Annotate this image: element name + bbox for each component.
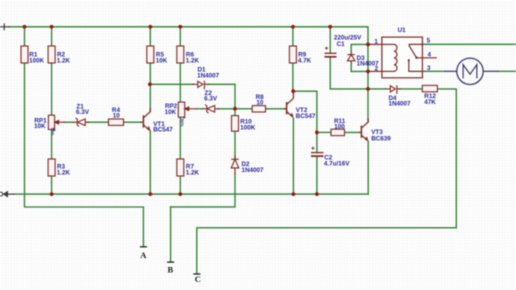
svg-text:4: 4 <box>428 51 432 58</box>
svg-text:50%: 50% <box>180 119 185 127</box>
svg-text:1: 1 <box>374 39 378 46</box>
svg-text:6.3V: 6.3V <box>76 109 90 116</box>
svg-text:1.2K: 1.2K <box>186 58 200 65</box>
svg-text:10: 10 <box>113 113 121 120</box>
svg-text:4.7K: 4.7K <box>298 58 312 65</box>
svg-text:C1: C1 <box>337 41 346 48</box>
svg-text:A: A <box>140 250 147 260</box>
svg-text:47K: 47K <box>424 99 436 106</box>
svg-text:100K: 100K <box>240 124 256 131</box>
svg-text:100K: 100K <box>29 58 45 65</box>
svg-text:10K: 10K <box>156 58 168 65</box>
svg-text:1N4007: 1N4007 <box>197 73 220 80</box>
svg-text:10K: 10K <box>34 123 46 130</box>
svg-text:1N4007: 1N4007 <box>389 101 412 108</box>
svg-text:U1: U1 <box>398 27 407 34</box>
svg-text:1.2K: 1.2K <box>57 58 71 65</box>
svg-text:C: C <box>195 274 201 284</box>
svg-text:10K: 10K <box>165 109 177 116</box>
svg-text:BC547: BC547 <box>296 113 316 120</box>
svg-text:1.2K: 1.2K <box>186 170 200 177</box>
svg-text:5: 5 <box>427 38 431 45</box>
svg-text:10: 10 <box>256 99 264 106</box>
svg-text:4.7u/16V: 4.7u/16V <box>324 160 350 167</box>
svg-text:B: B <box>168 265 174 275</box>
svg-text:1.2K: 1.2K <box>57 170 71 177</box>
svg-text:50%: 50% <box>51 128 56 136</box>
svg-text:BC547: BC547 <box>153 127 173 134</box>
svg-text:1N4007: 1N4007 <box>242 167 265 174</box>
svg-text:6.3V: 6.3V <box>204 96 218 103</box>
svg-text:2: 2 <box>375 65 379 72</box>
svg-text:3: 3 <box>427 65 431 72</box>
svg-text:BC639: BC639 <box>371 135 391 142</box>
svg-text:100: 100 <box>334 124 345 131</box>
